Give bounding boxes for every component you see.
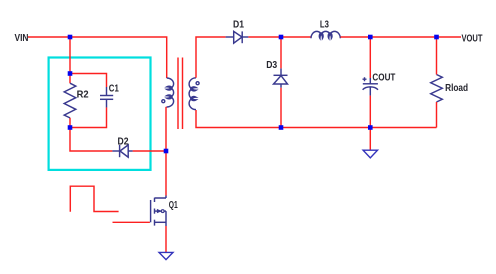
inductor L3 [311,31,340,38]
wire R2 bottom lead [69,118,71,128]
junction dot Rload top [434,35,439,40]
wire output rail to ground [369,128,371,151]
transformer core lines [177,58,179,130]
channel dashes [154,198,156,202]
transformer primary phase dot [162,100,165,103]
svg-text:D2: D2 [118,137,129,148]
wire COUT top lead [369,37,371,78]
pulse waveform (gate drive) [70,186,118,212]
transformer T primary winding [167,78,174,107]
drain stub [155,196,167,199]
diode D1 (pointing right) [226,31,249,43]
source stub [155,221,167,223]
wire D3 bottom lead [280,88,282,128]
wire gate drive to Q1 gate [113,221,150,223]
svg-text:Rload: Rload [445,83,468,94]
svg-text:VIN: VIN [15,33,29,44]
svg-text:D3: D3 [266,60,277,71]
transformer secondary phase dot [196,82,199,85]
diode D3 (freewheeling, pointing up) [274,68,288,87]
diode D2 (pointing left) [112,145,132,157]
junction dot snubber bottom [68,125,73,130]
transistor Q1 (NMOS) [151,196,166,227]
ground (below Q1) [159,252,173,259]
svg-text:COUT: COUT [372,72,395,83]
wire snubber out to D2 [70,128,112,152]
wire VIN top rail to transformer primary top, down to winding [28,37,167,78]
wire Rload bottom lead [436,102,438,128]
wire snubber drop from VIN rail [69,37,71,74]
wire R2 top lead [69,74,71,84]
wire transformer primary bottom to Q1 drain [165,107,168,196]
svg-text:C1: C1 [109,84,119,95]
junction dot VIN rail / snubber [68,35,73,40]
svg-text:VOUT: VOUT [462,33,483,44]
wire L3 to VOUT [341,36,462,38]
gate bar [150,200,152,222]
junction dot D3 top [279,35,284,40]
highlight box (cyan) around snubber [49,58,151,170]
capacitor COUT (polarized) [363,77,379,95]
junction dot D3 bottom [279,125,284,130]
resistor R2 [64,83,76,118]
wire Rload top lead [436,37,438,75]
wire COUT bottom lead [369,96,371,128]
junction dot D2 / drain line [164,149,169,154]
wire C1 branch bottom [70,107,107,127]
transformer T secondary winding [189,78,196,110]
wire secondary top to D1 [196,37,226,78]
wire C1 branch top [70,74,107,88]
junction dot COUT bottom / ground [368,125,373,130]
ground (output section) [363,150,377,158]
capacitor C1 [100,87,113,107]
svg-text:L3: L3 [320,19,329,30]
svg-text:D1: D1 [233,19,244,30]
junction dot COUT top [368,35,373,40]
wire D3 top lead [280,37,282,68]
svg-text:Q1: Q1 [169,200,178,211]
junction dot snubber top [68,71,73,76]
wire D2 to drain line [133,150,166,152]
wire Q1 source to ground [165,226,167,252]
svg-text:R2: R2 [77,89,89,100]
wire secondary bottom + output bottom rail [196,110,437,128]
resistor Rload [431,75,443,103]
body stub with arrow and dot [155,210,162,212]
wire D1 to L3 [248,36,311,38]
